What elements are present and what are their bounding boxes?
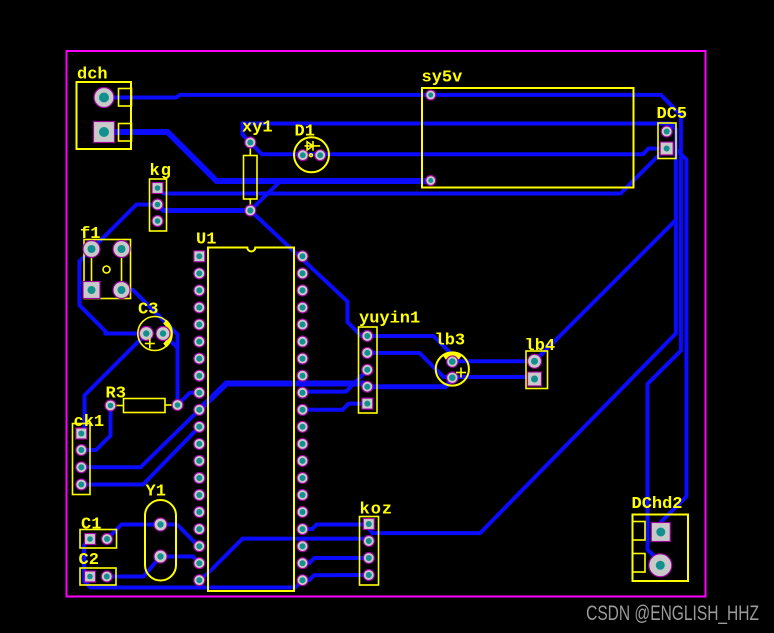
svg-text:kg: kg [150,162,172,181]
wire U1 left pad20 across to koz pad2 [199,539,368,581]
svg-text:D1: D1 [295,123,315,142]
wire C2 square stub [84,575,90,579]
wire xy1 bottom stub up to power trace [250,181,280,211]
wire ck1 pad4 to U1 left pad12 [81,427,199,485]
wire kg pad2 to f1 pad1 [92,205,158,250]
svg-text:DChd2: DChd2 [632,495,683,514]
svg-text:R3: R3 [106,385,126,404]
wire f1 pad4 to R3 right pad [122,290,178,405]
svg-text:C2: C2 [79,551,99,570]
svg-text:DC5: DC5 [657,105,688,124]
wire DC5 round pad stub [667,124,675,132]
svg-text:f1: f1 [80,225,100,244]
diode D1 [294,123,329,173]
wire thick trace U1 left pad10 to yuyin1 pad4 [199,384,367,410]
wire dch2 power trace to sy5v pad2 (thick) [104,132,431,181]
header koz [360,501,394,586]
wire U1 right pad20 to koz pad4 [303,575,369,580]
header kg [150,162,172,231]
wire kg pad1 to right side [158,149,667,194]
svg-text:CSDN @ENGLISH_HHZ: CSDN @ENGLISH_HHZ [586,601,759,626]
wire C1 round pad via Y1 pad1 to U1 left pad18 [107,525,199,547]
svg-text:ck1: ck1 [74,413,105,432]
wire lb3 top pad to lb4 round pad [452,359,534,363]
wire dch1 to sy5v pad1 to right-side vertical down to koz pad1 [104,95,681,565]
svg-text:dch: dch [77,66,108,85]
wire U1 right pad19 to koz pad3 [303,558,369,563]
resistor R3 [105,385,183,413]
wire yuyin1 pad2 to lb3 bottom pad [367,353,452,377]
wire xy1 bottom long diagonal to yuyin1 pad1 [250,211,367,337]
wire branch to U1 left pad9 [178,393,200,405]
svg-text:C1: C1 [81,516,101,535]
capacitor C3 [138,301,172,351]
wire C3 right pad stub [163,334,178,349]
resistor xy1 [242,119,273,217]
svg-text:U1: U1 [196,231,216,250]
svg-text:Y1: Y1 [146,483,166,502]
module sy5v [422,69,634,188]
header yuyin1 [359,310,421,414]
svg-text:koz: koz [360,501,394,520]
capacitor C1 [80,516,117,549]
wire yuyin1 pad3 to U1 right pad9 [303,370,368,393]
wire ck1 pad2 to R3 left pad [81,406,110,451]
IC U1 [194,231,308,592]
svg-text:C3: C3 [138,301,158,320]
header ck1 [73,413,105,495]
crystal Y1 [145,483,176,581]
wire xy1 top through D1 to DChd2 square pad [250,143,686,533]
wire C3 left pad to ck1 pad1 [81,334,146,434]
capacitor C2 [79,551,117,585]
wire C1/C2 square pads ground rail to U1 right pad20 [84,539,303,588]
wire kg pad2 to xy1 bottom (thick) [158,205,251,211]
connector DChd2 [632,495,689,581]
wire C2 round pad via Y1 pad2 to U1 left pad19 [107,557,200,577]
connector DC5 [657,105,688,159]
wire f1 pad1 down to C3 left pad [80,249,147,333]
board outline [67,51,706,597]
svg-text:xy1: xy1 [242,119,273,138]
connector lb4 [525,337,556,389]
wire yuyin1 pad1 to lb3 top pad [367,336,452,361]
wire xy1 top to sy5v row2 to DChd2 round pad [243,124,676,534]
svg-text:sy5v: sy5v [422,69,463,88]
svg-text:lb3: lb3 [435,332,466,351]
component f1 [80,225,131,299]
wire lb4 diagonal to right vertical [535,220,676,361]
wire ck1 pad3 to U1 left pad11 [81,410,199,468]
wire U1 right pad17 to koz pad1 [303,525,369,530]
wire yuyin1 pad4 power continuation to lb3 bottom pad [367,380,452,387]
wire lb3 bottom pad to lb4 square pad [452,377,534,379]
led lb3 [435,332,469,386]
connector dch [77,66,132,150]
svg-text:lb4: lb4 [525,337,556,356]
wire U1 right pad10 to yuyin1 pad5 [303,404,368,410]
svg-text:yuyin1: yuyin1 [359,310,420,329]
